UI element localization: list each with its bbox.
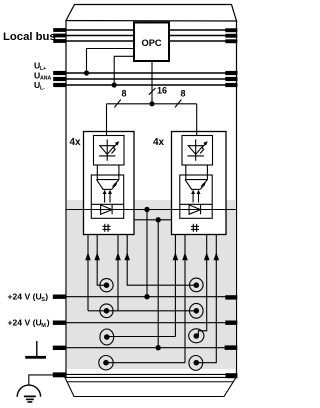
svg-text:): ) [47,318,50,328]
LED box 2 [182,136,213,166]
svg-text:8: 8 [122,88,127,98]
bus width slash left 8 [114,100,120,108]
analog rail across blocks (diode wire level) [66,209,237,211]
terminal bar right FE [225,345,238,350]
terminal dot C3 [104,334,110,340]
UL+ power line [56,72,232,74]
LED D3 triangle [188,146,203,155]
UL- power line [56,84,232,86]
terminal bar right shield [226,373,238,378]
terminal bar local bus 2 right [225,34,237,38]
terminal bar UL- right [225,83,237,87]
DAC hash symbol [104,224,106,232]
phototransistor base bar 2 [191,188,200,190]
diode D2 triangle [101,205,112,214]
opto box 2 [180,175,212,218]
signal arrow block1 wire4 [124,252,130,260]
terminal bar left FE [53,346,67,350]
svg-text:+24 V (U: +24 V (U [8,318,42,328]
svg-text:): ) [45,292,48,302]
DAC hash symbol 2 [192,224,194,232]
local bus line 1 [56,29,134,31]
signal arrow block2 wire2 [182,252,188,260]
phototransistor emitter arrow [112,185,116,190]
terminal dot C2 [104,308,110,314]
wire block2 out 2 (from row4) [184,235,186,363]
row GND (C2-R2) [88,310,196,312]
terminal dot C4 [103,360,109,366]
terminal bar local bus 3 right [225,39,237,43]
terminal dot R4 [194,360,200,366]
phototransistor funnel top 2 [185,179,208,181]
node analog rail [144,207,149,212]
LED D3 vertical wire [195,139,197,160]
optocoupler block 2 [172,132,227,235]
signal arrow block1 wire3 [115,252,121,260]
junction dots [84,70,161,350]
terminal bar left US [53,295,67,299]
funnel left slant [97,180,104,190]
foot top edge line [67,381,233,383]
row FE [57,347,231,349]
wire data branch right 8 [196,104,198,136]
rail yA segment inside blocks redraw [84,209,135,211]
signal arrow block1 wire2 [94,252,100,260]
LED D1 light flash arrow [112,144,117,153]
svg-text:8: 8 [181,88,186,98]
module bottom foot (3D) [65,378,236,397]
terminal circle C4 [99,356,113,370]
svg-text:ANA: ANA [40,76,51,82]
opto box divider [91,203,123,205]
wire OPC to UL+ [87,49,135,74]
local bus line 2 [56,35,134,37]
LED D1 cathode bar [99,155,115,157]
funnel right slant [113,180,120,187]
svg-text:4x: 4x [153,137,165,148]
row US +24V [57,296,231,298]
wire data branch horizontal [107,103,197,105]
signal arrow block2 wire3 [204,252,210,260]
terminal dot R1 [194,282,200,288]
gap vertical from analog rail [146,210,148,297]
signal arrow block1 wire1 [85,252,91,260]
opto box divider 2 [180,203,212,205]
wire block1 out 2 [97,235,104,286]
terminal circle C3 [100,329,114,345]
opto box 1 [91,175,123,218]
svg-text:OPC: OPC [142,38,162,48]
connector LED box to opto box left 2 [185,165,187,180]
terminal bar local bus 1 left [53,28,66,32]
diode D4 triangle [189,205,200,214]
terminal dot C1 [104,282,110,288]
terminal circle C2 [100,304,113,318]
node lower rail [156,217,161,222]
node US row [144,294,149,299]
OPC box [134,23,169,62]
diode D4 cathode bar [200,205,202,214]
terminal bar local bus 3 left [53,39,66,43]
terminal bar UL+ right [225,71,237,75]
LED box 1 [94,136,125,166]
LED D3 cathode bar [188,155,204,157]
PE wire to earth symbol [29,375,54,386]
node FE row [156,345,161,350]
node UL- tap [112,82,117,87]
terminal circle R4 [189,356,203,371]
svg-text:M: M [41,323,46,329]
wire block2 out 3 to R3 [198,235,206,336]
FE symbol (inverted T) [36,341,38,357]
row shield [57,373,231,375]
module top face (3D) [66,5,237,22]
bus width slash right 8 [175,100,181,108]
wire OPC to UL- [114,56,134,85]
node data branch [149,101,154,106]
phototransistor funnel top [97,179,120,181]
connector LED box to opto box right [118,165,120,180]
block1 top entry wire [106,132,108,137]
wire block2 out 4 to R4 [199,235,216,363]
connector LED box to opto box right 2 [206,165,208,180]
terminal circle R2 [190,303,204,318]
light arrow 3 [192,193,194,203]
terminal bar UANA left [53,77,66,81]
terminal bar UANA right [225,77,237,81]
terminal circle R3 [189,329,204,343]
svg-text:+24 V (U: +24 V (U [8,292,42,302]
funnel right slant 2 [201,180,208,187]
connector LED box to opto box left [96,165,98,180]
wire data branch left 8 [106,104,108,136]
PE earth symbol [17,385,40,397]
wire block1 out 1 [87,235,89,311]
terminal bar local bus 1 right [225,28,237,32]
wire block2 out 1 (from row3) [174,235,176,337]
row4 C4 to block2 [107,362,186,364]
gray terminal zone [67,200,236,369]
terminal circles [99,278,204,370]
diode D2 cathode bar [111,205,113,214]
rail between blocks lower [134,219,172,221]
terminal bar local bus 2 left [53,34,66,38]
light arrow 2 [109,193,111,203]
terminal circle R1 [190,278,204,292]
phototransistor base bar [103,188,112,190]
funnel left slant 2 [185,180,192,190]
svg-text:16: 16 [157,86,167,96]
svg-text:L-: L- [40,85,45,91]
bus width slash 16 [149,88,156,95]
wire block1 out 3 [117,235,119,311]
terminal dot R2 [194,308,200,314]
row UM +24V [57,322,231,324]
block2 top entry wire [196,132,198,137]
terminal bar UL+ left [53,71,66,75]
LED D1 vertical wire [106,139,108,160]
UANA power line [56,78,232,80]
signal arrow block2 wire1 [173,252,179,260]
node UL+ tap [84,70,89,75]
svg-text:L+: L+ [40,66,46,72]
svg-text:4x: 4x [70,137,82,148]
light arrow 1 [104,193,106,203]
local bus line 3 [56,40,134,42]
phototransistor emitter arrow 2 [200,185,204,190]
svg-text:Local bus: Local bus [3,31,56,43]
wire block1 out 4 [127,235,196,286]
row3 C3 to block2 [107,336,176,338]
terminal circle C1 [100,279,113,292]
terminal bar UL- left [53,83,66,87]
optocoupler block 1 [84,132,135,235]
terminal dot R3 [194,333,200,339]
terminal bar right US [225,295,237,299]
terminal bar right UM [225,321,237,325]
terminal bar left shield [53,372,67,377]
module body outline [66,21,237,378]
terminal bar left UM [53,321,67,325]
signal arrow block2 wire4 [214,252,220,260]
light arrow 4 [198,193,200,203]
LED D1 triangle [100,146,115,155]
wire OPC data bus 16 [151,61,153,104]
gap vertical from lower rail [157,220,159,348]
LED D3 light flash arrow [200,144,205,153]
